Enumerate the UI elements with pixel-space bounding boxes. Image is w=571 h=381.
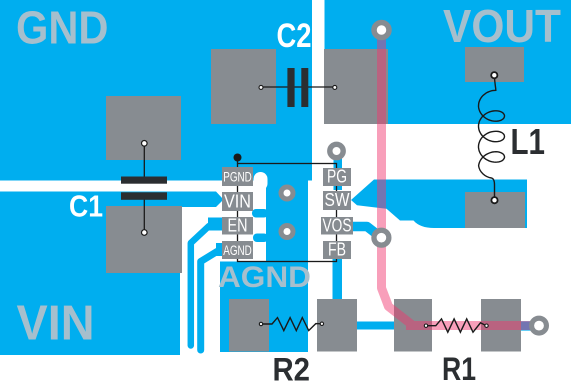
resistor R1 symbol (426, 319, 486, 332)
pad C2 left (211, 49, 276, 124)
pin FB (323, 241, 351, 259)
pin VOS (321, 217, 353, 235)
SW wide trace + L1 bottom copper (351, 180, 527, 229)
svg-text:R1: R1 (442, 351, 476, 381)
pin SW (323, 191, 351, 210)
resistor R2 symbol (261, 318, 322, 331)
node R2 right (320, 322, 323, 325)
svg-text:C1: C1 (69, 189, 103, 224)
pad C1 top (106, 96, 181, 160)
via center top (281, 187, 293, 199)
central AGND pour column (266, 120, 308, 352)
svg-text:VIN: VIN (17, 297, 95, 351)
pin VIN (222, 192, 253, 211)
FB trace strip down to R2 (333, 255, 343, 301)
node L1 top (491, 72, 497, 78)
pad L1 bottom (465, 192, 525, 228)
trace R1 to output via (519, 321, 540, 330)
PG via trace strip (334, 146, 343, 190)
svg-text:C2: C2 (277, 17, 312, 55)
pad C2 right (324, 49, 388, 124)
via center bottom (281, 226, 293, 238)
svg-text:VIN: VIN (224, 192, 251, 212)
node C2 right (333, 85, 337, 89)
pad R2 right (317, 299, 357, 352)
capacitor C1 symbol: wire (143, 143, 145, 177)
pad C1 bottom (106, 206, 182, 273)
node C2 left (259, 85, 263, 89)
node L1 bottom (491, 197, 497, 203)
svg-text:VOS: VOS (323, 216, 352, 236)
svg-text:R2: R2 (273, 352, 311, 381)
pad L1 top (465, 47, 524, 82)
svg-text:L1: L1 (511, 121, 546, 162)
svg-text:AGND: AGND (218, 261, 311, 294)
node R1 right (485, 324, 488, 327)
svg-text:GND: GND (16, 1, 109, 53)
pin 1 dot (234, 154, 242, 162)
capacitor C1 plates (121, 177, 167, 184)
GND copper plane (top left) (0, 0, 312, 181)
svg-text:EN: EN (228, 216, 248, 236)
svg-text:PGND: PGND (223, 170, 252, 185)
VOS trace to via (351, 227, 381, 238)
via R1 output (532, 318, 547, 333)
svg-text:AGND: AGND (223, 243, 252, 258)
pour tab between EN and AGND pins (253, 234, 268, 243)
pad R1 left (394, 299, 432, 352)
pin EN (222, 217, 253, 235)
svg-text:PG: PG (327, 167, 347, 187)
VIN copper plane (bottom left) (0, 192, 223, 356)
EN trace going down (208, 218, 223, 231)
capacitor C2 symbol: wire (260, 86, 335, 88)
capacitor C2 plates (287, 68, 294, 107)
svg-text:SW: SW (325, 190, 350, 210)
pour tab between VIN and EN pins (252, 209, 268, 218)
node C1 bottom (142, 230, 148, 236)
node R2 left (259, 322, 262, 325)
svg-text:VOUT: VOUT (443, 0, 561, 52)
pink top-layer trace VOUT net (382, 27, 541, 326)
pad R2 left (229, 299, 269, 352)
via VOS (374, 230, 389, 245)
pin PG (323, 168, 351, 186)
AGND pour (below IC) (220, 262, 307, 353)
via PG (330, 144, 343, 157)
VOUT copper plane (top right) (325, 0, 571, 124)
svg-text:FB: FB (328, 240, 346, 260)
node R1 left (424, 324, 427, 327)
pad R1 right (481, 299, 521, 352)
pin PGND (222, 167, 253, 186)
AGND trace going down (216, 243, 223, 256)
via VOUT top (374, 23, 389, 38)
node C1 top (142, 141, 148, 147)
pin AGND (222, 241, 253, 259)
clearance notch around PGND pin (254, 172, 268, 191)
trace R2 to R1 (357, 322, 395, 330)
IC outline U1 (238, 164, 337, 262)
inductor L1 coil (479, 76, 505, 201)
